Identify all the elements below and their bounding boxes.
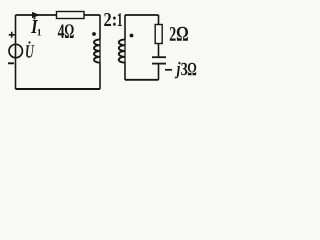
secondary polarity dot (130, 34, 134, 38)
plus sign (9, 32, 15, 38)
label minus sign of -j3 ohm (165, 69, 172, 71)
wire right vertical upper (158, 15, 160, 25)
wire below capacitor (158, 64, 160, 80)
minus sign (8, 62, 14, 64)
wire between resistor and capacitor (158, 44, 160, 58)
wire top-left horizontal (16, 14, 101, 16)
label 4 ohm (58, 24, 74, 38)
voltage source U (9, 44, 22, 57)
current arrow I1 (32, 12, 40, 18)
wire left vertical (15, 15, 17, 89)
label 2 ohm (170, 27, 188, 41)
transformer secondary coil (119, 15, 125, 80)
label U (26, 41, 34, 57)
wire bottom-right horizontal (125, 79, 159, 81)
capacitor -j3ohm (152, 57, 166, 63)
primary polarity dot (92, 32, 96, 36)
wire top-right horizontal (125, 14, 159, 16)
resistor R 4ohm (57, 12, 85, 19)
label I1 (31, 17, 41, 35)
label j3 ohm (175, 62, 197, 79)
label 2:1 (104, 13, 122, 26)
resistor R 2ohm (155, 25, 162, 44)
transformer primary coil (94, 15, 100, 89)
wire bottom-left horizontal (16, 88, 101, 90)
